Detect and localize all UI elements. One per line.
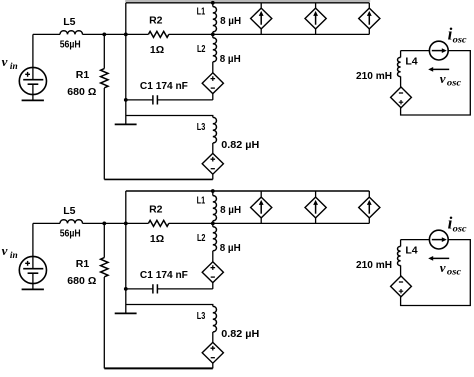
svg-text:L5: L5 [63, 205, 75, 217]
wire: vin to rail (circuit 2) [32, 223, 34, 256]
svg-text:L2: L2 [197, 43, 206, 55]
svg-text:C1 174 nF: C1 174 nF [140, 80, 189, 92]
svg-text:680 Ω: 680 Ω [67, 275, 96, 287]
svg-text:v: v [2, 243, 8, 258]
svg-text:210 mH: 210 mH [356, 70, 392, 82]
capacitor C1 (circuit 2) [126, 288, 213, 290]
ground (vin) (circuit 2) [22, 288, 44, 290]
svg-text:56µH: 56µH [60, 39, 81, 51]
junction: L1 top (circuit 2) [211, 189, 215, 193]
dependent current source 1 (circuit 1) [260, 3, 262, 35]
svg-text:v: v [440, 260, 446, 275]
dependent voltage source under L2 (circuit 2) [202, 262, 223, 283]
svg-text:L3: L3 [197, 310, 206, 322]
svg-text:L5: L5 [63, 16, 75, 28]
svg-text:R1: R1 [76, 258, 90, 270]
ground (left branch) (circuit 1) [115, 123, 137, 125]
svg-text:L1: L1 [197, 194, 206, 206]
arrow v_osc (circuit 1) [432, 68, 450, 70]
current source i_osc (circuit 2) [429, 230, 448, 249]
svg-text:680 Ω: 680 Ω [67, 86, 96, 98]
junction: L1/L2/R2 node (circuit 2) [211, 222, 215, 226]
svg-text:R2: R2 [149, 204, 163, 216]
dependent current source 3 (circuit 2) [368, 191, 370, 223]
dependent current source 2 (circuit 1) [315, 3, 317, 35]
resistor R2 (circuit 2) [148, 220, 168, 226]
svg-text:8 µH: 8 µH [220, 53, 241, 65]
svg-text:0.82 µH: 0.82 µH [221, 328, 259, 340]
junction: C1 left (circuit 1) [124, 98, 128, 102]
svg-text:L3: L3 [197, 121, 206, 133]
svg-text:1Ω: 1Ω [150, 233, 164, 245]
wire: vin to rail (circuit 1) [32, 34, 34, 67]
dependent voltage source under L4 (circuit 1) [391, 87, 412, 108]
junction: L1/L2/R2 node (circuit 1) [211, 33, 215, 37]
svg-text:osc: osc [453, 224, 468, 234]
inductor L1 (circuit 1) [212, 3, 214, 7]
current source i_osc (circuit 1) [429, 41, 448, 60]
wire: top rail (circuit 1) [126, 2, 369, 4]
dependent voltage source under L2 (circuit 1) [202, 73, 223, 94]
junction: R1 top (circuit 2) [102, 222, 106, 226]
inductor L4 (circuit 2) [400, 240, 402, 247]
svg-text:8 µH: 8 µH [220, 204, 241, 216]
junction: left branch at rail (circuit 2) [124, 222, 128, 226]
wire: bottom return rail (circuit 2) [104, 367, 213, 369]
resistor R2 (circuit 1) [148, 31, 168, 37]
resistor R1 (circuit 2) [103, 223, 105, 257]
inductor L5 (circuit 1) [60, 31, 83, 35]
ground (left branch) (circuit 2) [115, 312, 137, 314]
junction: C1 left (circuit 2) [124, 287, 128, 291]
svg-text:osc: osc [453, 35, 468, 45]
wire: top rail (circuit 2) [126, 190, 369, 192]
dependent voltage source under L3 (circuit 1) [202, 153, 223, 174]
svg-text:L2: L2 [197, 232, 206, 244]
wire: oscillator loop (circuit 2) [401, 240, 471, 306]
svg-text:56µH: 56µH [60, 228, 81, 240]
dependent voltage source under L3 (circuit 2) [202, 342, 223, 363]
wire: oscillator loop (circuit 1) [401, 51, 471, 115]
svg-text:R2: R2 [149, 15, 163, 27]
svg-text:210 mH: 210 mH [356, 259, 392, 271]
svg-text:0.82 µH: 0.82 µH [221, 139, 259, 151]
wire: left vertical branch (top rail to ground) (circuit 1) [125, 3, 127, 125]
dependent current source 2 (circuit 2) [315, 191, 317, 223]
wire: left vertical branch (top rail to ground) (circuit 2) [125, 191, 127, 313]
svg-text:L4: L4 [405, 244, 417, 256]
svg-text:in: in [10, 61, 18, 71]
svg-text:v: v [440, 71, 446, 86]
arrow v_osc (circuit 2) [432, 257, 450, 259]
svg-text:8 µH: 8 µH [220, 242, 241, 254]
ground (vin) (circuit 1) [22, 99, 44, 101]
wire: bottom return rail (circuit 1) [104, 178, 213, 180]
inductor L1 (circuit 2) [212, 191, 214, 196]
resistor R1 (circuit 1) [103, 34, 105, 68]
svg-text:L4: L4 [405, 55, 417, 67]
svg-text:8 µH: 8 µH [220, 15, 241, 27]
svg-text:in: in [10, 250, 18, 260]
wire: input rail with L5/R2 gaps (circuit 2) [33, 222, 369, 224]
junction: L1 top (circuit 1) [211, 1, 215, 5]
inductor L3 (circuit 1) [213, 117, 217, 143]
capacitor C1 (circuit 1) [126, 99, 213, 101]
wire: input rail with L5/R2 gaps (circuit 1) [33, 33, 369, 35]
junction: R1 top (circuit 1) [102, 33, 106, 37]
inductor L4 (circuit 1) [400, 51, 402, 58]
inductor L2 (circuit 2) [212, 223, 214, 226]
svg-text:R1: R1 [76, 69, 90, 81]
dependent current source 1 (circuit 2) [260, 191, 262, 223]
inductor L3 (circuit 2) [213, 306, 217, 332]
svg-text:C1 174 nF: C1 174 nF [140, 269, 189, 281]
voltage source vin (circuit 1) [19, 67, 46, 100]
svg-text:osc: osc [447, 266, 461, 276]
junction: left branch at rail (circuit 1) [124, 33, 128, 37]
inductor L5 (circuit 2) [60, 220, 83, 224]
dependent voltage source under L4 (circuit 2) [391, 276, 412, 297]
voltage source vin (circuit 2) [19, 256, 46, 289]
wire: ground branch to L3 (circuit 2) [126, 305, 213, 307]
dependent current source 3 (circuit 1) [368, 3, 370, 35]
svg-text:1Ω: 1Ω [150, 44, 164, 56]
svg-text:osc: osc [447, 77, 461, 87]
svg-text:v: v [2, 54, 8, 69]
wire: ground branch to L3 (circuit 1) [126, 116, 213, 118]
inductor L2 (circuit 1) [212, 34, 214, 37]
svg-text:L1: L1 [197, 5, 206, 17]
